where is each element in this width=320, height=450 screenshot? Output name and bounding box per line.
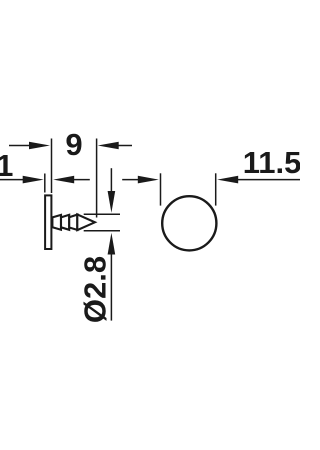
tip cone — [77, 214, 95, 230]
dim 9: right extension line — [96, 139, 98, 218]
svg-text:Ø2.8: Ø2.8 — [78, 256, 113, 323]
flange plate (side view) — [45, 195, 51, 249]
svg-text:9: 9 — [65, 127, 82, 162]
dim 1: right arrowhead — [53, 176, 74, 184]
dim 9: right arrow tail — [117, 145, 132, 147]
dim 11.5: right extension line — [215, 173, 217, 205]
dim 2.8: lower arrow tail / leader — [110, 253, 112, 321]
dim 9: left arrowhead — [29, 142, 50, 150]
dim 11.5: right arrow tail — [237, 179, 300, 181]
dim 9: right arrowhead — [98, 142, 119, 150]
dim 1: left extension line — [44, 174, 46, 193]
dim 11.5: left arrowhead — [138, 176, 159, 184]
front view circle Ø11.5 — [162, 196, 216, 250]
svg-text:1: 1 — [0, 148, 13, 183]
barb 2 — [61, 215, 69, 230]
dim 9: left arrow tail — [9, 145, 31, 147]
dim 2.8: upper arrowhead (down) — [108, 191, 116, 213]
svg-text:11.5: 11.5 — [243, 145, 300, 180]
dim 1: left arrow tail — [0, 179, 24, 181]
dim 1: right arrow tail — [73, 179, 90, 181]
dim 2.8: shank bottom extension line — [84, 230, 120, 232]
barb 1 — [52, 215, 61, 230]
dim 11.5: right arrowhead — [217, 176, 238, 184]
dim 2.8: upper arrow tail — [110, 168, 112, 192]
dim 2.8: shank top extension line — [84, 213, 120, 215]
dim 11.5: left extension line — [160, 173, 162, 205]
dim 1: left arrowhead — [23, 176, 44, 184]
dim 11.5: left arrow tail — [122, 179, 139, 181]
dim 9: left extension line — [51, 139, 53, 194]
dim 2.8: lower arrowhead (up) — [108, 233, 116, 255]
barb 3 — [69, 215, 77, 230]
